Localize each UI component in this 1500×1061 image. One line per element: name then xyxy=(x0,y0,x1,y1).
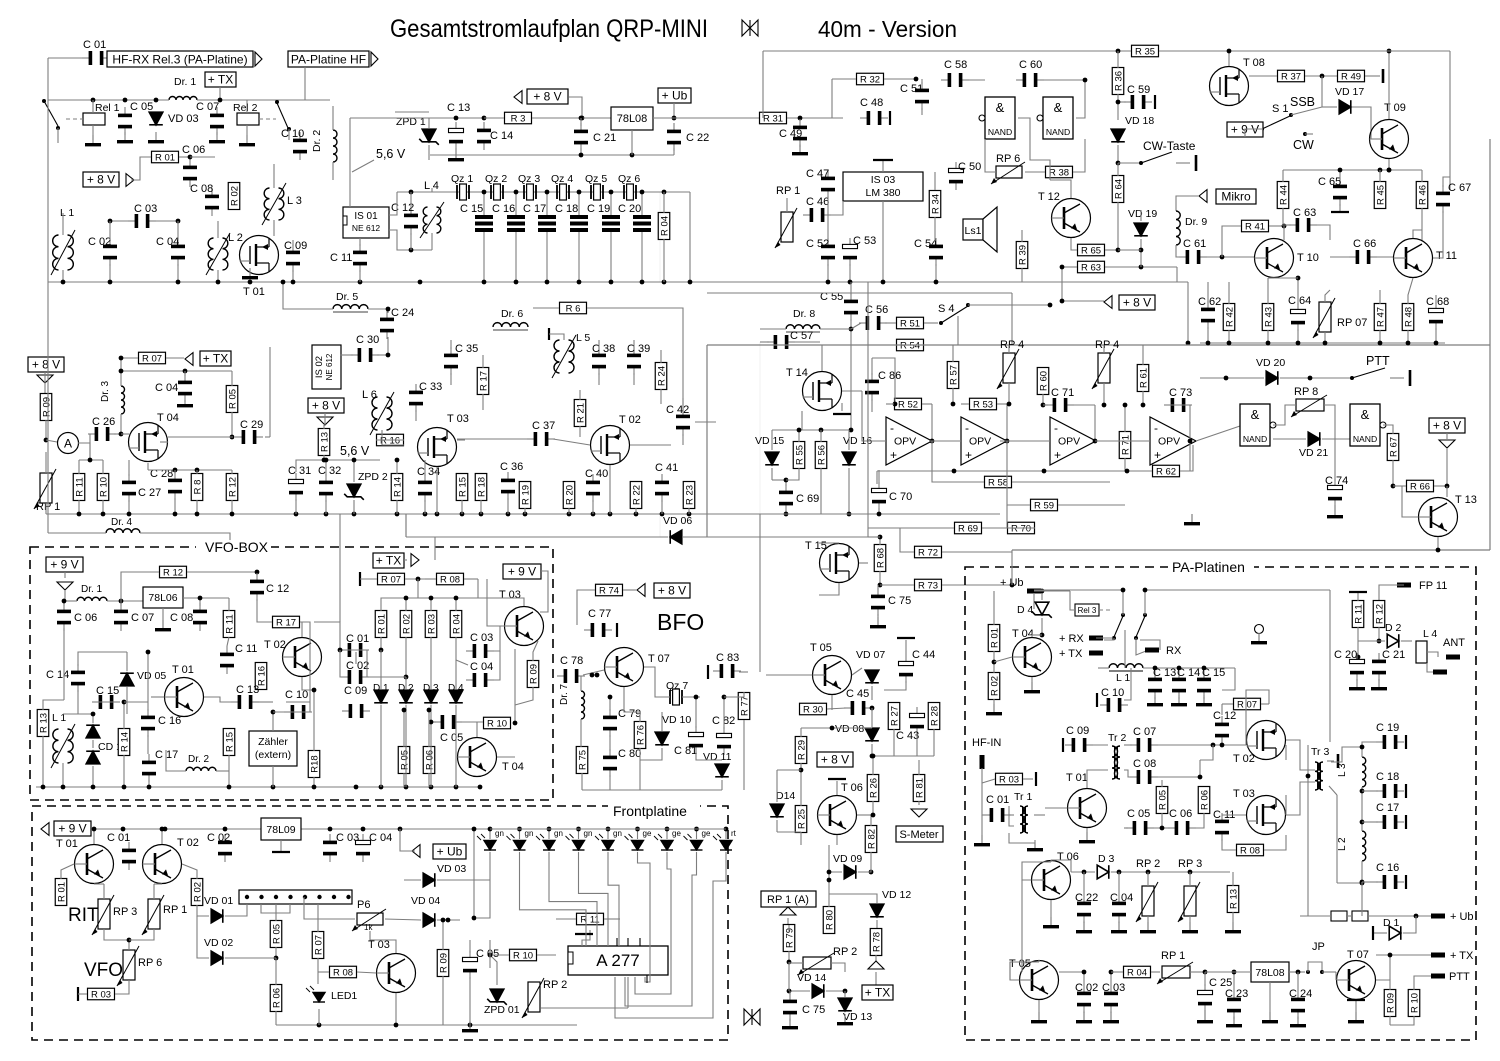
svg-text:R 05: R 05 xyxy=(1157,790,1168,810)
capacitor C 65 xyxy=(1333,178,1347,206)
svg-text:R 37: R 37 xyxy=(1281,72,1301,83)
svg-text:R 01: R 01 xyxy=(989,628,1000,648)
svg-text:T 07: T 07 xyxy=(648,653,670,665)
terminal FP 11 xyxy=(1397,583,1411,588)
pot RP 1 audio xyxy=(781,212,793,242)
resistor R 22 xyxy=(630,482,642,509)
capacitor C 41 xyxy=(655,474,669,502)
varactor CD 1 xyxy=(86,725,100,738)
svg-text:+ TX: + TX xyxy=(865,986,890,1000)
svg-text:R 44: R 44 xyxy=(1278,185,1289,205)
capacitor C 25 pa xyxy=(1198,984,1213,1012)
capacitor C 16 xyxy=(507,215,525,232)
svg-text:C 20: C 20 xyxy=(1334,649,1357,661)
svg-text:C 14: C 14 xyxy=(490,130,513,142)
svg-text:-: - xyxy=(965,421,969,435)
wire xyxy=(305,67,330,100)
svg-text:C 02: C 02 xyxy=(207,832,230,844)
svg-text:R 39: R 39 xyxy=(1017,245,1028,265)
svg-text:R 81: R 81 xyxy=(914,778,925,798)
svg-text:C 09: C 09 xyxy=(1066,725,1089,737)
diode VD 08 xyxy=(865,728,879,741)
switch CW key xyxy=(1118,162,1140,164)
resistor R 05 vert left xyxy=(226,386,238,413)
svg-text:RP 1 (A): RP 1 (A) xyxy=(767,894,809,906)
wires audio amp xyxy=(827,196,829,240)
capacitor C 48 xyxy=(860,111,888,125)
LED rt 9 xyxy=(713,834,732,850)
svg-text:R 73: R 73 xyxy=(918,581,938,592)
resistor R 17 vfo xyxy=(273,616,300,628)
svg-text:NAND: NAND xyxy=(1046,127,1070,137)
svg-text:Rel 3: Rel 3 xyxy=(1078,606,1097,615)
resistor R 55 xyxy=(793,442,805,469)
svg-text:C 03: C 03 xyxy=(470,632,493,644)
svg-text:VD 03: VD 03 xyxy=(168,113,199,125)
svg-text:L 2: L 2 xyxy=(228,232,243,244)
LED LED1 xyxy=(306,986,325,1002)
svg-text:RX: RX xyxy=(1166,645,1182,657)
solid box center xyxy=(707,344,1490,346)
transistor T 01 pa xyxy=(1068,789,1107,828)
capacitor C 12 vfo xyxy=(250,573,264,601)
resistor R 09 pa xyxy=(1384,990,1396,1017)
svg-text:C 07: C 07 xyxy=(1133,726,1156,738)
svg-text:R 04: R 04 xyxy=(659,216,670,236)
crystal Qz 2 xyxy=(491,184,503,200)
svg-text:+ 9 V: + 9 V xyxy=(58,822,86,836)
svg-text:R 53: R 53 xyxy=(973,400,993,411)
resistor R 43 xyxy=(1262,304,1274,331)
svg-text:PTT: PTT xyxy=(1366,354,1390,368)
diodes D1-D4 xyxy=(374,690,388,703)
capacitor C 61 xyxy=(1179,250,1207,264)
LED gn 4 xyxy=(566,834,585,850)
wires smeter xyxy=(800,728,802,737)
pot RP 4 a xyxy=(1003,353,1015,383)
resistor R 75 xyxy=(576,747,588,774)
svg-text:C 15: C 15 xyxy=(96,685,119,697)
flag + 9 V front xyxy=(54,821,91,836)
capacitor C 21 xyxy=(574,123,588,151)
svg-text:C 18: C 18 xyxy=(555,203,578,215)
capacitor C 08 pa xyxy=(1130,770,1158,784)
A277 pins xyxy=(617,938,647,983)
svg-text:T 10: T 10 xyxy=(1297,252,1319,264)
capacitor C 04 vfo2 xyxy=(466,673,494,687)
resistor R 28 xyxy=(928,703,940,730)
svg-text:C 01: C 01 xyxy=(107,832,130,844)
svg-text:T 01: T 01 xyxy=(243,286,265,298)
capacitor C 13 vfo xyxy=(231,695,259,709)
svg-text:RP 1: RP 1 xyxy=(776,185,800,197)
resistor R 79 xyxy=(783,925,795,952)
box Zaehler extern xyxy=(249,731,297,766)
capacitor C 14 vfo xyxy=(71,664,85,692)
svg-text:RP 2: RP 2 xyxy=(833,946,857,958)
capacitor C 07 vfo xyxy=(114,603,128,631)
svg-text:C 24: C 24 xyxy=(1289,988,1312,1000)
resistor R 25 xyxy=(795,806,807,833)
svg-text:R 32: R 32 xyxy=(860,75,880,86)
wire top power rail xyxy=(395,111,429,113)
svg-text:C 06: C 06 xyxy=(74,612,97,624)
svg-text:C 22: C 22 xyxy=(1075,892,1098,904)
capacitor C 05 vfo xyxy=(434,715,462,729)
capacitor C 55 xyxy=(844,293,858,321)
svg-text:C 21: C 21 xyxy=(1382,649,1405,661)
svg-text:R 20: R 20 xyxy=(564,485,575,505)
svg-text:R 79: R 79 xyxy=(784,928,795,948)
capacitor C 07 xyxy=(210,107,224,135)
svg-text:Dr. 3: Dr. 3 xyxy=(100,380,111,402)
svg-text:Tr 2: Tr 2 xyxy=(1108,732,1126,744)
resistor R 07 left xyxy=(139,352,166,364)
resistor R 03 pa xyxy=(996,773,1023,785)
svg-text:+ Ub: + Ub xyxy=(437,845,463,859)
capacitor C 04 front xyxy=(356,834,371,862)
capacitor C 18 pa xyxy=(1376,784,1404,798)
svg-text:ge: ge xyxy=(643,829,652,838)
pot RP 1 front xyxy=(148,899,160,929)
capacitor C 06 pa xyxy=(1168,821,1196,835)
IC A 277 xyxy=(568,946,668,975)
svg-text:R 15: R 15 xyxy=(457,477,468,497)
capacitor C 74 trimmer xyxy=(1328,479,1343,507)
svg-text:+ 8 V: + 8 V xyxy=(658,584,686,598)
svg-text:L 3: L 3 xyxy=(287,195,302,207)
svg-text:C 33: C 33 xyxy=(419,381,442,393)
svg-text:Dr. 2: Dr. 2 xyxy=(188,754,210,765)
LED nest wires xyxy=(473,829,475,918)
svg-text:C 20: C 20 xyxy=(618,203,641,215)
svg-text:R 15: R 15 xyxy=(224,732,235,752)
capacitor C 43 trimmer xyxy=(910,707,925,735)
resistor R 08 pa xyxy=(1237,844,1264,856)
svg-text:R 78: R 78 xyxy=(871,932,882,952)
svg-text:P6: P6 xyxy=(357,899,370,911)
svg-text:ge: ge xyxy=(702,829,711,838)
svg-text:A: A xyxy=(64,437,72,451)
opamp OPV 2 xyxy=(961,417,1007,465)
terminal + TX pa2 xyxy=(1431,953,1445,958)
svg-text:+ RX: + RX xyxy=(1059,633,1084,645)
svg-text:VD 18: VD 18 xyxy=(1125,115,1154,127)
pot RP 2 smeter xyxy=(803,957,831,969)
svg-text:C 12: C 12 xyxy=(266,583,289,595)
capacitor C 64 trimmer xyxy=(1291,303,1306,331)
capacitor C 24 pa xyxy=(1291,991,1305,1019)
diode VD 20 xyxy=(1266,371,1278,385)
svg-text:Qz 4: Qz 4 xyxy=(551,173,573,185)
svg-text:R 82: R 82 xyxy=(866,829,877,849)
capacitor C 39 xyxy=(627,347,641,375)
transistor T 09 xyxy=(1370,120,1409,159)
resistor R 08 front xyxy=(330,966,357,978)
svg-text:R 74: R 74 xyxy=(599,586,619,597)
resistor R 05 front xyxy=(270,921,282,948)
ground C05 xyxy=(117,132,133,143)
svg-text:VD 19: VD 19 xyxy=(1128,208,1157,220)
capacitor C 08 xyxy=(205,188,219,216)
flag + 8 V nand xyxy=(1429,418,1465,433)
wire gnd rail under regulator xyxy=(430,154,674,156)
LED gn 2 xyxy=(507,834,526,850)
svg-text:VD 08: VD 08 xyxy=(835,723,864,735)
IC 78L06 xyxy=(143,587,183,608)
capacitor C 32 xyxy=(319,474,333,502)
capacitor C 27 xyxy=(122,474,136,502)
svg-text:C 15: C 15 xyxy=(1202,667,1225,679)
svg-text:R 67: R 67 xyxy=(1388,437,1399,457)
capacitor C 16 vfo xyxy=(141,709,155,737)
capacitor C 81 trimmer xyxy=(689,726,704,754)
bowtie symbol top xyxy=(742,20,758,36)
diode VD 09 xyxy=(844,865,856,879)
transistor T 03 front xyxy=(377,954,416,993)
svg-text:SSB: SSB xyxy=(1290,95,1315,109)
svg-text:T 02: T 02 xyxy=(619,414,641,426)
svg-text:+ TX: + TX xyxy=(376,554,401,568)
resistor R 57 xyxy=(947,362,959,389)
transistor T 06 pa xyxy=(1032,861,1071,900)
relay contacts pa xyxy=(1034,589,1123,591)
capacitor C 11 pa xyxy=(1215,813,1229,841)
svg-text:R 13: R 13 xyxy=(1228,889,1239,909)
resistor R 04 pa xyxy=(1124,966,1151,978)
fuse beads +Ub xyxy=(1331,911,1347,921)
ground 78L06 xyxy=(155,620,171,631)
capacitor C 09 pa xyxy=(1065,738,1093,752)
svg-text:R 47: R 47 xyxy=(1375,307,1386,327)
svg-text:VFO-BOX: VFO-BOX xyxy=(205,539,269,555)
IC 78L08 xyxy=(611,107,653,130)
svg-text:C 07: C 07 xyxy=(131,612,154,624)
capacitor C 13 pa xyxy=(1148,671,1162,699)
capacitor C 68 trimmer xyxy=(1429,302,1444,330)
capacitor C 36 xyxy=(501,472,515,500)
svg-text:L 6: L 6 xyxy=(362,389,377,401)
svg-text:R 03: R 03 xyxy=(426,614,437,634)
svg-text:-: - xyxy=(890,421,894,435)
capacitor C 86 xyxy=(865,373,879,401)
resistor R 81 xyxy=(913,775,925,802)
svg-text:RP 3: RP 3 xyxy=(1178,858,1202,870)
diode VD 12 xyxy=(870,904,884,917)
NAND gate 2 xyxy=(1043,97,1073,139)
capacitor C 54 xyxy=(929,238,943,266)
resistor R 69 xyxy=(955,522,982,534)
flag + 9 V vfo right xyxy=(503,564,541,579)
flag + Ub xyxy=(658,88,691,103)
capacitor C 09 vfo xyxy=(342,704,370,718)
transistor T 02 vfo xyxy=(283,638,322,677)
resistor R 30 xyxy=(800,703,827,715)
resistor R 21 vert xyxy=(574,400,586,427)
svg-text:C 02: C 02 xyxy=(346,660,369,672)
svg-text:LM 380: LM 380 xyxy=(865,187,900,199)
svg-text:+ TX: + TX xyxy=(203,352,228,366)
arrow rp1a xyxy=(780,907,796,915)
svg-text:C 65: C 65 xyxy=(1318,176,1341,188)
svg-text:VD 12: VD 12 xyxy=(882,889,911,901)
svg-text:OPV: OPV xyxy=(894,436,916,448)
diode D 3 xyxy=(1097,865,1109,879)
capacitor C 02 pa xyxy=(1077,985,1091,1013)
svg-text:C 50: C 50 xyxy=(958,161,981,173)
connector circle xyxy=(1255,625,1264,634)
capacitor C 82 trimmer xyxy=(717,727,732,755)
ground VD03 xyxy=(148,132,164,143)
svg-text:C 13: C 13 xyxy=(447,102,470,114)
resistor R 70 xyxy=(1008,522,1035,534)
svg-text:(extern): (extern) xyxy=(255,749,291,761)
svg-text:R 55: R 55 xyxy=(794,445,805,465)
svg-text:RP 6: RP 6 xyxy=(138,957,162,969)
svg-text:C 17: C 17 xyxy=(1376,802,1399,814)
resistor R 80 xyxy=(823,907,835,934)
flag HF-RX Rel.3 (PA-Platine) xyxy=(107,51,253,67)
NAND gate 1 xyxy=(985,97,1015,139)
svg-text:C 04: C 04 xyxy=(369,832,392,844)
svg-text:R 68: R 68 xyxy=(875,548,886,568)
resistor R 31 xyxy=(760,112,787,124)
svg-text:+ TX: + TX xyxy=(1059,648,1083,660)
diode VD 18 xyxy=(1111,129,1125,142)
svg-text:R 12: R 12 xyxy=(227,477,238,497)
capacitor C 60 xyxy=(1016,73,1044,87)
svg-text:C 68: C 68 xyxy=(1426,296,1449,308)
svg-text:VD 03: VD 03 xyxy=(437,863,466,875)
svg-text:Mikro: Mikro xyxy=(1221,190,1251,204)
capacitor C 37 xyxy=(527,432,555,446)
opamp OPV 3 xyxy=(1050,417,1096,465)
svg-text:Dr. 8: Dr. 8 xyxy=(793,308,815,320)
svg-text:C 78: C 78 xyxy=(560,655,583,667)
svg-text:+ 8 V: + 8 V xyxy=(1123,296,1151,310)
wire IF connections xyxy=(296,460,380,472)
svg-text:Dr. 7: Dr. 7 xyxy=(559,683,570,705)
wires mixer feed xyxy=(968,304,1050,306)
svg-text:C 86: C 86 xyxy=(878,370,901,382)
svg-text:R 17: R 17 xyxy=(276,618,296,629)
svg-text:ANT: ANT xyxy=(1443,637,1465,649)
resistor R 47 xyxy=(1374,304,1386,331)
svg-text:C 27: C 27 xyxy=(138,487,161,499)
wire top rail y=100 xyxy=(48,99,169,101)
svg-text:C 42: C 42 xyxy=(666,404,689,416)
wires t15 xyxy=(859,562,868,564)
svg-text:CW-Taste: CW-Taste xyxy=(1143,139,1196,153)
transistor T 13 xyxy=(1419,498,1458,537)
capacitor C 19 pa xyxy=(1376,735,1404,749)
capacitor C 13 xyxy=(449,122,464,150)
flag + 8 V center xyxy=(527,89,568,104)
capacitor C 75 t15 xyxy=(871,588,885,616)
capacitor C 75 smeter xyxy=(783,993,797,1021)
svg-text:C 19: C 19 xyxy=(1376,722,1399,734)
svg-text:FP 11: FP 11 xyxy=(1419,580,1447,592)
relay Rel 3 xyxy=(1075,604,1099,616)
svg-text:R 19: R 19 xyxy=(520,485,531,505)
resistor R 44 xyxy=(1277,182,1289,209)
svg-text:T 14: T 14 xyxy=(786,367,808,379)
svg-text:R 05: R 05 xyxy=(271,924,282,944)
svg-text:Frontplatine: Frontplatine xyxy=(613,803,687,819)
svg-text:R 17: R 17 xyxy=(478,371,489,391)
svg-text:C 57: C 57 xyxy=(790,330,813,342)
svg-text:VD 05: VD 05 xyxy=(137,670,166,682)
svg-text:VD 14: VD 14 xyxy=(797,972,826,984)
svg-text:R 69: R 69 xyxy=(958,524,978,535)
svg-text:NAND: NAND xyxy=(1353,434,1377,444)
transformer L 6 xyxy=(372,397,377,430)
resistor R 11 pa xyxy=(1352,601,1364,628)
svg-text:R 10: R 10 xyxy=(513,951,533,962)
svg-text:T 05: T 05 xyxy=(810,642,832,654)
svg-text:VD 09: VD 09 xyxy=(833,853,862,865)
transistor T 10 xyxy=(1255,239,1294,278)
resistor R 61 xyxy=(1137,365,1149,392)
svg-text:D 3: D 3 xyxy=(1098,853,1115,865)
capacitor C 15 vfo xyxy=(92,695,120,709)
svg-text:RP 6: RP 6 xyxy=(996,153,1020,165)
svg-text:OPV: OPV xyxy=(1158,436,1180,448)
LED gn 5 xyxy=(595,834,614,850)
svg-text:C 10: C 10 xyxy=(281,128,304,140)
svg-text:78L06: 78L06 xyxy=(148,592,177,604)
svg-text:RP 1: RP 1 xyxy=(1161,950,1185,962)
svg-text:C 64: C 64 xyxy=(1288,295,1311,307)
capacitor C 30 xyxy=(351,348,379,362)
svg-text:C 07: C 07 xyxy=(196,101,219,113)
svg-text:R 27: R 27 xyxy=(889,706,900,726)
svg-text:R 6: R 6 xyxy=(566,304,581,315)
svg-text:C 09: C 09 xyxy=(344,685,367,697)
svg-text:RP 07: RP 07 xyxy=(1337,317,1367,329)
transistor T 04 vfo xyxy=(458,738,497,777)
svg-text:R 07: R 07 xyxy=(1237,700,1257,711)
resistor R 23 xyxy=(683,482,695,509)
svg-text:+ 9 V: + 9 V xyxy=(50,558,78,572)
svg-text:C 02: C 02 xyxy=(1075,982,1098,994)
wires front xyxy=(275,904,277,921)
transistor T 01 vfo xyxy=(165,678,204,717)
svg-text:T 03: T 03 xyxy=(368,939,390,951)
capacitor C 17 vfo xyxy=(142,754,156,782)
capacitor C 06 vfo xyxy=(57,603,71,631)
IC 78L08 pa xyxy=(1251,962,1289,982)
resistor R 16 vfo xyxy=(255,663,267,690)
svg-text:+: + xyxy=(965,448,972,462)
svg-text:R 11: R 11 xyxy=(74,477,85,496)
flag + 8 V xyxy=(83,172,119,187)
svg-text:C 13: C 13 xyxy=(1153,667,1176,679)
resistor R 07 vfo xyxy=(378,573,405,585)
svg-text:C 37: C 37 xyxy=(532,420,555,432)
opamp OPV 4 xyxy=(1150,417,1196,465)
svg-text:PA-Platinen: PA-Platinen xyxy=(1172,559,1245,575)
IC IS 01 NE 612 xyxy=(343,207,389,238)
svg-text:Qz 7: Qz 7 xyxy=(666,680,688,692)
wire RP2 to A277 xyxy=(541,1007,628,1009)
transformer L 4 xyxy=(423,207,427,233)
LED ge 6 xyxy=(625,834,644,850)
capacitor C 47 xyxy=(821,170,835,198)
crystal Qz 7 xyxy=(670,689,682,705)
svg-text:R 09: R 09 xyxy=(1385,993,1396,1013)
svg-text:+ TX: + TX xyxy=(1450,950,1474,962)
